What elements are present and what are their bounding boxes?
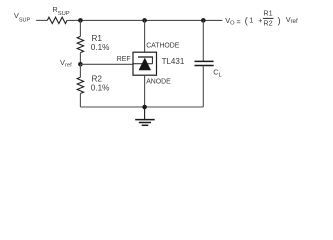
svg-text:R2: R2 xyxy=(263,19,272,28)
wire R1 bottom lead xyxy=(79,53,81,65)
node junction dot B (cathode/top rail) xyxy=(142,18,147,23)
wire REF (Vref node to TL431) xyxy=(80,63,133,65)
node junction dot A (RSUP/R1) xyxy=(78,18,83,23)
svg-text:): ) xyxy=(278,14,281,25)
wire TL431 anode lead xyxy=(144,75,146,107)
svg-text:ANODE: ANODE xyxy=(146,78,171,85)
svg-text:VSUP: VSUP xyxy=(14,11,31,23)
ground xyxy=(135,107,155,125)
wire R2 top lead xyxy=(79,64,81,77)
wire R2 bottom lead xyxy=(79,94,81,108)
wire bottom rail xyxy=(80,106,203,108)
svg-text:RSUP: RSUP xyxy=(52,5,69,17)
svg-text:CATHODE: CATHODE xyxy=(146,42,180,49)
resistor R1 xyxy=(77,36,83,52)
svg-text:CL: CL xyxy=(213,67,222,78)
node junction dot C (CL/top rail) xyxy=(201,18,206,23)
label output formula VO = (1 + R1/R2) Vref xyxy=(225,9,298,28)
svg-text:VO: VO xyxy=(225,16,235,27)
wire CL top lead xyxy=(202,20,204,61)
svg-text:REF: REF xyxy=(117,56,131,63)
wire top rail left segment xyxy=(36,19,47,21)
node junction dot D (anode/bottom rail) xyxy=(142,105,147,110)
wire TL431 cathode lead xyxy=(144,20,146,52)
resistor RSUP xyxy=(47,17,67,23)
resistor R2 xyxy=(77,77,83,93)
svg-text:+: + xyxy=(258,16,262,25)
svg-text:0.1%: 0.1% xyxy=(91,84,110,93)
svg-text:R1: R1 xyxy=(92,34,103,43)
svg-text:R2: R2 xyxy=(92,75,103,84)
svg-text:1: 1 xyxy=(249,15,253,24)
node Vref junction dot xyxy=(78,62,83,67)
wire R1 top lead xyxy=(79,20,81,36)
svg-text:TL431: TL431 xyxy=(162,57,185,66)
svg-text:ref: ref xyxy=(291,18,299,25)
wire top rail right segment xyxy=(67,19,222,21)
capacitor CL xyxy=(195,61,214,65)
svg-text:(: ( xyxy=(245,14,249,25)
svg-text:Vref: Vref xyxy=(60,58,72,69)
wire CL bottom lead xyxy=(202,66,204,108)
svg-text:=: = xyxy=(236,17,240,26)
svg-text:R1: R1 xyxy=(263,9,272,18)
svg-text:0.1%: 0.1% xyxy=(91,43,110,52)
op-amp U1 TL431 body xyxy=(133,52,157,75)
